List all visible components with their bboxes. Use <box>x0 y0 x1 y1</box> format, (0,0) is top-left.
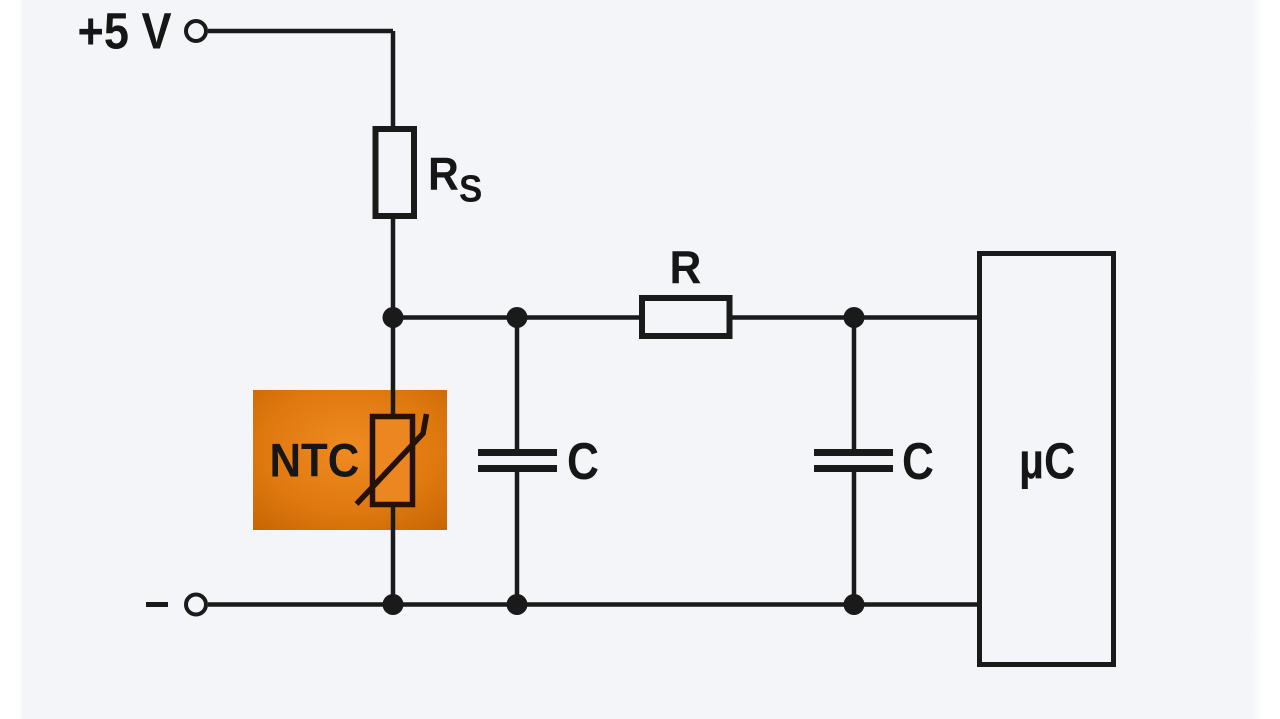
thermistor body <box>373 417 413 505</box>
wire C2 branch top <box>852 318 857 450</box>
thermistor diagonal <box>357 414 427 504</box>
terminal ground <box>186 595 206 615</box>
wire signal rail right <box>729 315 977 320</box>
capacitor C1 plate top <box>478 449 557 456</box>
svg-text:+5 V: +5 V <box>78 3 172 60</box>
svg-text:R: R <box>670 241 702 293</box>
node C2 top <box>844 307 865 328</box>
wire C2 branch bottom <box>852 472 857 605</box>
svg-text:C: C <box>567 433 599 491</box>
wire top rail <box>208 29 393 34</box>
node B <box>507 307 528 328</box>
node A <box>383 307 404 328</box>
wire NTC branch <box>391 318 396 605</box>
terminal +5V <box>186 21 206 41</box>
wire RS top <box>391 31 396 128</box>
svg-text:S: S <box>459 167 482 210</box>
NTC highlight box <box>253 390 447 530</box>
svg-text:NTC: NTC <box>270 434 360 487</box>
wire C1 branch top <box>515 318 520 450</box>
capacitor C1 plate bottom <box>478 465 557 472</box>
svg-text:µC: µC <box>1019 433 1075 490</box>
resistor R <box>642 298 730 336</box>
wire signal rail left <box>393 315 642 320</box>
svg-text:R: R <box>428 149 459 200</box>
node NTC bottom <box>383 594 404 615</box>
wire RS bottom <box>391 219 396 318</box>
capacitor C2 plate bottom <box>814 465 893 472</box>
capacitor C2 plate top <box>814 449 893 456</box>
label minus <box>146 602 168 607</box>
node C2 bottom <box>844 594 865 615</box>
svg-text:C: C <box>902 433 934 491</box>
microcontroller U1 box <box>980 254 1114 665</box>
wire C1 branch bottom <box>515 472 520 605</box>
node C1 bottom <box>507 594 528 615</box>
wire ground rail <box>208 602 977 607</box>
resistor RS <box>376 129 415 216</box>
